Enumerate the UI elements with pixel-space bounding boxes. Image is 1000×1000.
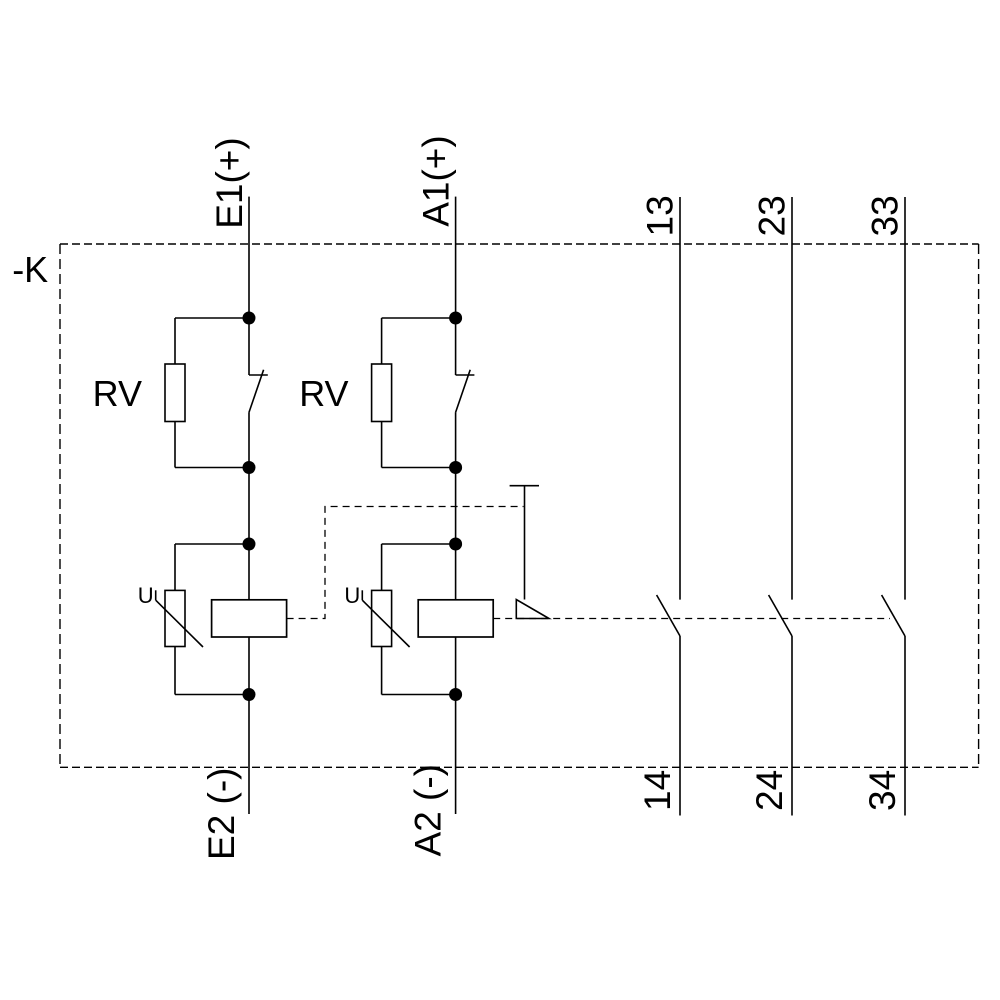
svg-text:23: 23 [752,195,793,236]
NC contact blade (A branch) [456,370,471,413]
terminal label E1(+) [209,137,250,229]
label -K [12,249,48,290]
wire RV-A bottom [382,467,456,469]
wire A2 output [455,695,457,815]
wire varistor-E bottom [175,694,249,696]
terminal label A2 (-) [408,764,449,857]
NO contact 33-34 lower wire [904,636,906,816]
wire RV-E top [175,317,249,319]
node A1-d [449,688,462,701]
node A1-b [449,461,462,474]
node E1-b [243,461,256,474]
svg-text:24: 24 [749,770,790,811]
wire node E1-c to coil K-E [248,544,250,600]
wire E1 input [248,197,250,318]
NO contact 33-34 blade [882,595,905,636]
enclosure -K dashed border [60,244,979,767]
node E1-c [243,538,256,551]
NC contact seat (E branch) [249,374,268,376]
wire varistor-A left upper [381,544,383,590]
node A1-c [449,538,462,551]
svg-text:34: 34 [862,770,903,811]
resistor RV (A branch) [372,364,392,422]
svg-text:-K: -K [12,249,48,290]
wire NC contact to node A1-b [455,413,457,468]
wire RV-A top [382,317,456,319]
wire varistor-A top [382,543,456,545]
coil K-A [418,600,493,637]
wire NC contact to node E1-b [248,413,250,468]
svg-text:A2 (-): A2 (-) [408,764,449,857]
wire varistor-A left lower [381,647,383,695]
wire E1 node-a to NC contact [248,318,250,375]
resistor RV (E branch) [165,364,185,422]
wire varistor-E left lower [174,647,176,695]
NO contact 23-24 lower wire [791,636,793,816]
terminal label A1(+) [416,135,457,227]
actuator T [510,486,549,619]
svg-text:33: 33 [865,195,906,236]
wire coil K-A to node A1-d [455,637,457,695]
varistor U (E branch) [156,590,203,647]
wire RV-E left upper [174,318,176,364]
NO contact 13-14 upper wire [679,197,681,600]
terminal label E2 (-) [201,768,242,861]
svg-text:14: 14 [637,770,678,811]
wire RV-A left upper [381,318,383,364]
svg-text:E1(+): E1(+) [209,137,250,229]
wire varistor-A bottom [382,694,456,696]
NC contact seat (A branch) [456,374,475,376]
wire node A1-c to coil K-A [455,544,457,600]
NO contact 23-24 blade [769,595,792,636]
svg-text:U: U [344,583,360,608]
svg-text:E2 (-): E2 (-) [201,768,242,861]
coil K-E [212,600,287,637]
wire RV-A left lower [381,422,383,468]
wire varistor-E top [175,543,249,545]
wire E2 output [248,695,250,815]
wire varistor-E left upper [174,544,176,590]
wire RV-E left lower [174,422,176,468]
NO contact 13-14 lower wire [679,636,681,816]
svg-text:U: U [138,583,154,608]
mechanical link dashed (coil K-A to contacts) [493,618,890,620]
svg-text:13: 13 [640,195,681,236]
wire node A1-b to node A1-c [455,468,457,545]
node E1-d [243,688,256,701]
mechanical link dashed (coil K-E to actuator) [287,507,524,619]
NO contact 23-24 upper wire [791,197,793,600]
node A1-a [449,312,462,325]
wire A1 input [455,197,457,318]
svg-text:RV: RV [93,373,142,414]
wire A1 node-a to NC contact [455,318,457,375]
NO contact 13-14 blade [657,595,680,636]
node E1-a [243,312,256,325]
svg-text:A1(+): A1(+) [416,135,457,227]
svg-text:RV: RV [299,373,348,414]
wire coil K-E to node E1-d [248,637,250,695]
NO contact 33-34 upper wire [904,197,906,600]
wire node E1-b to node E1-c [248,468,250,545]
NC contact blade (E branch) [249,370,264,413]
varistor U (A branch) [362,590,409,647]
wire RV-E bottom [175,467,249,469]
